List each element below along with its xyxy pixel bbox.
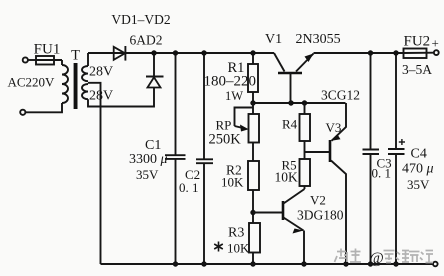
terminal AC bottom-left	[20, 110, 25, 115]
svg-text:FU2: FU2	[404, 34, 431, 50]
svg-text:FU1: FU1	[34, 42, 61, 58]
transistor V1 collector	[274, 53, 285, 72]
fuse FU1	[28, 56, 62, 65]
svg-text:V3: V3	[326, 120, 342, 135]
resistor R2	[248, 161, 259, 190]
svg-text:C4: C4	[411, 147, 427, 162]
svg-text:VD1–VD2: VD1–VD2	[111, 12, 170, 27]
capacitor C2 plates	[196, 158, 213, 160]
label R3 star	[214, 242, 223, 252]
svg-text:V1: V1	[265, 32, 282, 47]
svg-text:T: T	[71, 48, 80, 64]
capacitor C1 wire	[175, 53, 177, 155]
capacitor C3 plates	[363, 149, 380, 151]
node dot C3 bottom	[368, 261, 373, 266]
transformer secondary upper winding 28V	[82, 66, 88, 81]
svg-text:2N3055: 2N3055	[296, 32, 341, 47]
terminal output plus	[434, 50, 439, 55]
svg-text:+: +	[432, 36, 439, 51]
wire top rail left	[88, 52, 274, 54]
node dot A3 (R4 top)	[302, 100, 307, 105]
node dot V2 emitter bottom	[301, 261, 306, 266]
capacitor C1 plates	[165, 154, 186, 156]
wire R2 to R3	[252, 190, 254, 223]
transistor V3 emitter	[332, 103, 347, 141]
svg-text:R4: R4	[282, 117, 298, 132]
watermark zhihu	[335, 249, 362, 263]
svg-text:180–220: 180–220	[204, 74, 257, 90]
diode VD1	[114, 46, 126, 61]
transistor V3 base bar	[329, 140, 332, 162]
node dot C2 bottom	[201, 261, 206, 266]
transistor V3 base wire	[305, 151, 330, 153]
node dot A1	[250, 100, 255, 105]
transistor V3 collector	[331, 161, 346, 265]
transistor V2 collector	[284, 189, 305, 204]
node dot C3 top	[368, 50, 373, 55]
transistor V2 emitter	[284, 218, 305, 265]
svg-text:3300 μ: 3300 μ	[129, 152, 168, 167]
svg-text:RP: RP	[216, 118, 232, 133]
svg-text:@: @	[370, 250, 384, 267]
terminal AC top-left	[23, 57, 28, 62]
node dot C4 bottom	[393, 261, 398, 266]
svg-text:V2: V2	[310, 193, 326, 208]
transistor V2 base bar	[282, 201, 285, 220]
transistor V1 emitter	[296, 54, 314, 72]
fuse FU2	[404, 49, 434, 59]
wire bottom terminal to primary	[25, 103, 62, 112]
svg-text:6AD2: 6AD2	[130, 33, 163, 48]
node dot A2 (V1 base)	[288, 100, 293, 105]
resistor R5	[300, 159, 311, 189]
node dot C2 top	[201, 50, 206, 55]
svg-text:AC220V: AC220V	[8, 75, 56, 90]
node dot R1 top	[250, 50, 255, 55]
svg-text:10K: 10K	[275, 170, 299, 185]
capacitor C2 wire	[203, 53, 205, 159]
wire secondary top to rail	[87, 53, 89, 66]
resistor R4	[300, 103, 311, 159]
svg-text:470 μ: 470 μ	[402, 162, 434, 177]
transformer T primary winding	[62, 65, 68, 103]
node dot C1 bottom	[173, 261, 178, 266]
transformer secondary lower winding 28V	[82, 84, 88, 99]
svg-text:250K: 250K	[209, 132, 242, 148]
svg-text:C1: C1	[145, 138, 161, 153]
node dot VD2 top	[151, 50, 156, 55]
node dot C1 top	[173, 50, 178, 55]
svg-text:1W: 1W	[225, 89, 243, 103]
wire bottom rail	[101, 263, 434, 265]
wire node B to V2 base	[253, 212, 282, 214]
capacitor C3 wire	[370, 53, 372, 150]
label C4 plus	[399, 139, 405, 145]
transistor V1 base bar	[278, 72, 302, 75]
svg-text:10K: 10K	[221, 175, 244, 190]
svg-text:35V: 35V	[136, 167, 159, 182]
node dot B (R2-R3)	[250, 210, 255, 215]
resistor R3	[249, 223, 260, 264]
svg-text:3CG12: 3CG12	[321, 88, 360, 103]
diode VD2	[146, 53, 164, 88]
capacitor C4 plates	[388, 148, 405, 150]
node dot C4 top	[393, 50, 398, 55]
node A wire (R1 bottom to V3 emitter)	[253, 102, 346, 104]
svg-text:3DG180: 3DG180	[297, 208, 344, 223]
node dot R3 bottom	[250, 261, 255, 266]
svg-text:0. 1: 0. 1	[179, 180, 199, 195]
svg-text:3–5A: 3–5A	[402, 62, 432, 77]
capacitor C4 wire	[395, 53, 397, 149]
wire secondary bottom to VD2 anode	[88, 88, 154, 107]
svg-text:R3: R3	[228, 226, 244, 241]
wire top rail right	[314, 52, 404, 54]
transformer core	[74, 63, 78, 109]
node dot V3 collector bottom	[343, 261, 348, 266]
wire center tap	[88, 83, 101, 264]
svg-text:10K: 10K	[227, 241, 250, 256]
transistor V1 base lead	[290, 73, 292, 103]
svg-text:35V: 35V	[407, 177, 430, 192]
wire fuse to transformer primary	[61, 60, 63, 65]
svg-text:28V: 28V	[89, 65, 113, 80]
potentiometer RP	[235, 103, 260, 161]
terminal output minus	[433, 262, 438, 267]
svg-text:0. 1: 0. 1	[372, 166, 392, 181]
resistor R1	[248, 53, 258, 103]
